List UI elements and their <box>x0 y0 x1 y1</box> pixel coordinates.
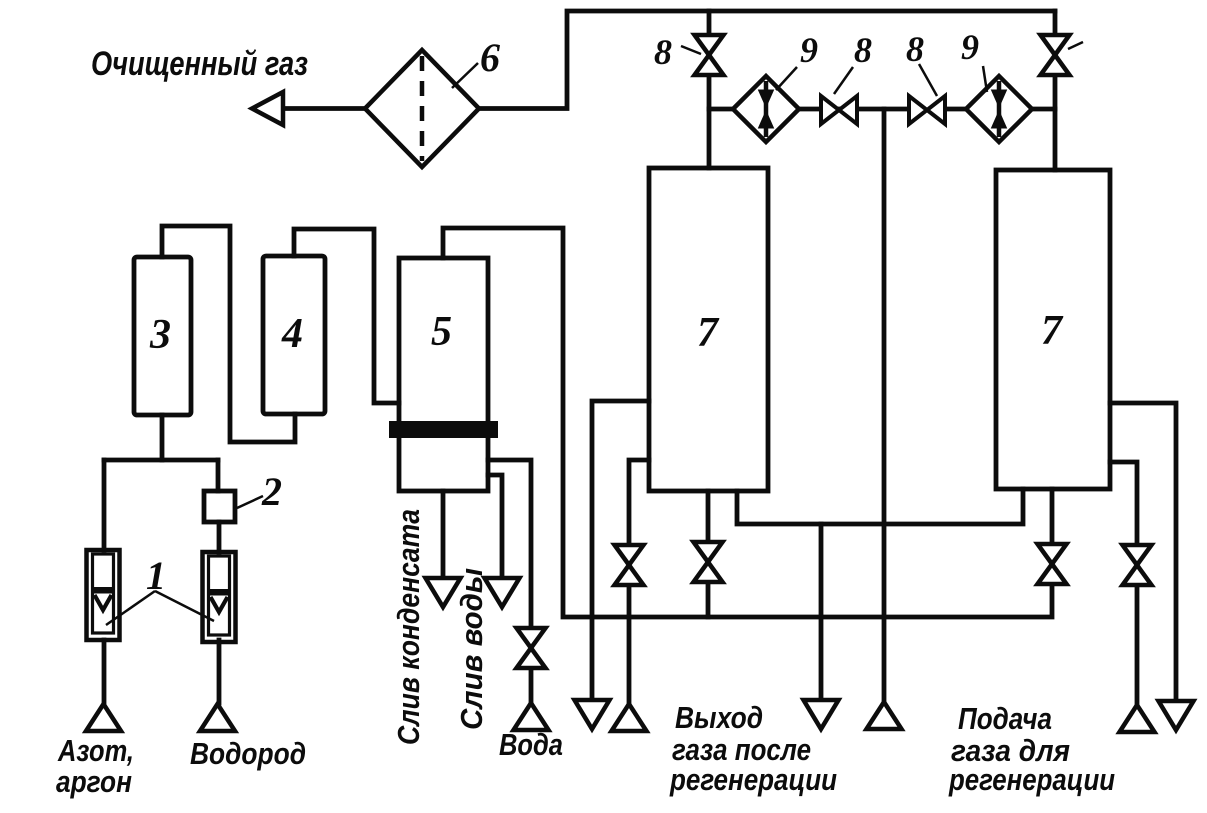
svg-text:Слив конденсата: Слив конденсата <box>391 509 426 745</box>
svg-text:Водород: Водород <box>190 736 306 771</box>
svg-text:7: 7 <box>697 310 720 356</box>
svg-text:6: 6 <box>480 35 500 80</box>
svg-text:регенерации: регенерации <box>669 762 837 797</box>
svg-text:Подача: Подача <box>958 701 1052 736</box>
svg-text:аргон: аргон <box>56 764 132 799</box>
svg-text:Вода: Вода <box>499 727 563 762</box>
svg-text:9: 9 <box>961 27 979 67</box>
svg-text:Очищенный газ: Очищенный газ <box>91 45 308 83</box>
svg-text:5: 5 <box>431 309 452 355</box>
svg-text:8: 8 <box>854 30 872 70</box>
svg-text:регенерации: регенерации <box>948 762 1115 797</box>
svg-text:2: 2 <box>261 469 282 514</box>
svg-text:8: 8 <box>906 29 924 69</box>
svg-text:4: 4 <box>281 311 303 357</box>
svg-text:3: 3 <box>149 312 171 358</box>
svg-text:Слив воды: Слив воды <box>454 568 489 730</box>
svg-text:1: 1 <box>146 553 166 598</box>
svg-text:8: 8 <box>654 32 672 72</box>
svg-text:7: 7 <box>1041 308 1064 354</box>
svg-text:Азот,: Азот, <box>57 733 134 768</box>
svg-text:Выход: Выход <box>675 700 763 735</box>
svg-text:9: 9 <box>800 30 818 70</box>
